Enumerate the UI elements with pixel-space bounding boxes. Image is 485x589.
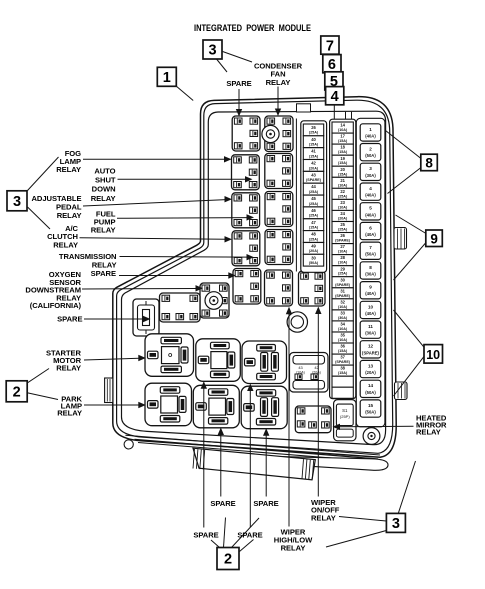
callout 3 left [7, 191, 27, 211]
svg-text:5: 5 [369, 206, 372, 211]
svg-text:(SPARE): (SPARE) [335, 294, 351, 298]
wire starter motor relay leader [84, 358, 140, 360]
fuse B18 33 (30A) [332, 310, 353, 321]
svg-text:13: 13 [368, 363, 374, 368]
callout 1 [157, 67, 176, 86]
wire oxygen sensor relay leader [82, 288, 197, 291]
relay block col1 row3 (adjustable pedal relay) [232, 193, 260, 228]
svg-text:(10A): (10A) [338, 261, 348, 265]
module housing middle contour [117, 100, 393, 453]
fuse 5 (40A) [360, 203, 381, 220]
svg-text:8: 8 [369, 265, 372, 270]
relay block col1 row1 (spare) [232, 116, 260, 151]
wire spare upper-left to relay E [220, 433, 222, 497]
fuse A5 43 (SPARE) [303, 171, 323, 183]
svg-text:38: 38 [340, 366, 345, 371]
park lamp relay (big block D) [145, 383, 192, 426]
bottom-right screw boss [363, 428, 380, 445]
svg-text:(25A): (25A) [309, 237, 319, 241]
svg-text:(50A): (50A) [365, 153, 376, 158]
callout 8 [421, 154, 438, 171]
callout 2 left [6, 381, 27, 402]
svg-text:SPARE: SPARE [91, 269, 116, 278]
svg-text:10: 10 [368, 304, 374, 309]
svg-text:9: 9 [369, 285, 372, 290]
svg-text:2: 2 [13, 385, 21, 401]
svg-text:(50A): (50A) [365, 390, 376, 395]
svg-text:(25A): (25A) [309, 202, 319, 206]
svg-text:(SPARE): (SPARE) [335, 360, 351, 364]
svg-text:12: 12 [368, 344, 374, 349]
svg-text:(40A): (40A) [365, 291, 376, 296]
fuse 1 (40A) [360, 124, 381, 141]
wire a/c clutch relay leader [80, 238, 227, 239]
inner wall step lines [345, 112, 347, 121]
bottom cover lip [218, 455, 388, 470]
svg-text:27: 27 [340, 244, 345, 249]
fuse B7 22 (25A) [332, 188, 353, 199]
svg-text:40: 40 [311, 137, 316, 142]
svg-text:34: 34 [340, 322, 345, 327]
svg-text:SPARE: SPARE [237, 531, 262, 540]
fuse A12 30 (50A) [303, 254, 323, 266]
svg-text:(15A): (15A) [309, 143, 319, 147]
wire callout 3 bottom to corner [398, 461, 415, 513]
fuse B23 38 (15A) [332, 365, 353, 376]
fuse B13 28 (10A) [332, 255, 353, 266]
wire condenser fan label to relay [277, 87, 279, 112]
svg-text:(50A): (50A) [365, 252, 376, 257]
fuse A3 41 (15A) [303, 148, 323, 160]
oxygen sensor downstream relay (california) with round center [200, 283, 229, 318]
wire callout 2 left to starter label [27, 369, 50, 384]
fuse 15 (50A) [360, 400, 381, 417]
right side tab upper [394, 228, 407, 250]
svg-text:(40A): (40A) [365, 133, 376, 138]
svg-text:3: 3 [369, 166, 372, 171]
fuse B1 14 (10A) [332, 122, 353, 133]
fuse B19 34 (10A) [332, 321, 353, 332]
svg-text:30: 30 [311, 255, 316, 260]
svg-text:(20A): (20A) [309, 166, 319, 170]
svg-text:(15A): (15A) [338, 161, 348, 165]
fuse 9 (40A) [360, 282, 381, 299]
svg-text:42: 42 [311, 161, 316, 166]
svg-text:48: 48 [311, 232, 316, 237]
wire callout 10 upper [394, 310, 425, 348]
callout 10 [424, 345, 443, 364]
fuse 12 (SPARE) [360, 341, 381, 358]
wiper on/off relay block [299, 271, 326, 306]
svg-text:(25A): (25A) [309, 131, 319, 135]
fuse A2 40 (15A) [303, 136, 323, 148]
fuse B10 25 (25A) [332, 222, 353, 233]
relay block col2 row4 (transmission relay) [265, 230, 293, 265]
svg-text:10: 10 [426, 348, 440, 362]
callout 3 top [203, 40, 222, 59]
svg-text:(50A): (50A) [309, 261, 319, 265]
svg-text:SPARE: SPARE [193, 531, 218, 540]
fuse 13 (20A) [360, 360, 381, 377]
fuse 8 (30A) [360, 262, 381, 279]
svg-text:19: 19 [340, 156, 345, 161]
svg-text:(25P): (25P) [340, 414, 350, 419]
starter motor relay (big block A) [145, 334, 194, 377]
svg-text:47: 47 [311, 220, 316, 225]
wire callout 3 top to condenser label [223, 52, 252, 63]
fuse B15 30 (SPARE) [332, 277, 353, 288]
wire spare-left leader [84, 318, 145, 320]
svg-text:(25A): (25A) [309, 190, 319, 194]
spare connector block [133, 299, 159, 336]
svg-text:(15A): (15A) [309, 226, 319, 230]
svg-text:INTEGRATED POWER MODULE: INTEGRATED POWER MODULE [194, 23, 311, 33]
svg-text:4: 4 [331, 89, 339, 105]
svg-text:26: 26 [340, 233, 345, 238]
bottom mounting tray [193, 448, 315, 480]
svg-text:(20A): (20A) [365, 370, 376, 375]
svg-text:(10A): (10A) [338, 338, 348, 342]
fuse A9 47 (15A) [303, 219, 323, 231]
svg-text:(10A): (10A) [338, 128, 348, 132]
svg-text:17: 17 [340, 134, 345, 139]
svg-text:(15A): (15A) [338, 172, 348, 176]
wire auto shut down relay leader [118, 178, 247, 180]
fuse B25 empty [332, 387, 353, 398]
callout 6 [323, 55, 341, 73]
svg-text:14: 14 [340, 123, 345, 128]
svg-text:(15A): (15A) [338, 371, 348, 375]
svg-text:1: 1 [369, 127, 372, 132]
wire callout 3 bottom to wiper high/low label [326, 531, 386, 548]
svg-text:49: 49 [311, 244, 316, 249]
fuse 10 (40A) [360, 301, 381, 318]
svg-text:8: 8 [425, 156, 433, 171]
bottom rim line [135, 439, 379, 459]
wire callout 3 left to a/c clutch label [28, 207, 51, 229]
svg-text:36: 36 [340, 344, 345, 349]
svg-text:(30A): (30A) [365, 271, 376, 276]
wire spare lower-left to callout 2 [211, 540, 220, 548]
svg-text:29: 29 [340, 266, 345, 271]
fuse B24 empty [332, 376, 353, 387]
wire transmission relay leader [120, 256, 249, 259]
wire callout 2 left to park label [26, 393, 58, 400]
svg-text:32: 32 [340, 299, 345, 304]
svg-text:AUTOSHUTDOWNRELAY: AUTOSHUTDOWNRELAY [91, 167, 116, 203]
relay block row5 left [233, 269, 261, 305]
wire wiper high/low relay line [288, 313, 290, 527]
callout 9 [426, 230, 443, 247]
svg-text:(25A): (25A) [338, 194, 348, 198]
fuse B9 24 (20A) [332, 210, 353, 221]
fuse B2 17 (15A) [332, 133, 353, 144]
svg-text:(50A): (50A) [365, 410, 376, 415]
dual fuse holder 43/42 [290, 353, 329, 393]
svg-text:(10A): (10A) [338, 205, 348, 209]
svg-text:(SPARE): (SPARE) [335, 283, 351, 287]
fuse B4 19 (15A) [332, 155, 353, 166]
fuse A1 26 (25A) [303, 124, 323, 136]
svg-text:30: 30 [340, 277, 345, 282]
svg-text:(40A): (40A) [365, 193, 376, 198]
svg-text:(20A): (20A) [309, 249, 319, 253]
svg-text:45: 45 [311, 196, 316, 201]
bottom-left screw hole [124, 440, 133, 449]
svg-text:6: 6 [328, 57, 336, 73]
wire callout 3 left to fog lamp label [28, 157, 59, 191]
wire park lamp relay leader [84, 404, 140, 406]
big relay block B [196, 339, 241, 382]
center mounting ring [287, 312, 307, 332]
wire spare-top to relay row1 col1 [238, 89, 240, 112]
fuse 4 (40A) [360, 183, 381, 200]
svg-text:18: 18 [340, 145, 345, 150]
svg-text:21: 21 [340, 178, 345, 183]
fuse column A container [301, 121, 327, 272]
wire callout 8 to fuse bank wall [388, 168, 422, 194]
svg-text:33: 33 [340, 311, 345, 316]
wire callout 4 stack into fuse bank [333, 104, 335, 119]
relay block col2 row2 (auto shut down relay) [265, 154, 293, 189]
fuse B12 27 (10A) [332, 244, 353, 255]
svg-text:(15A): (15A) [309, 154, 319, 158]
fuse 11 (30A) [360, 321, 381, 338]
fuse A6 44 (25A) [303, 183, 323, 195]
big relay block C [242, 341, 287, 384]
svg-text:(15A): (15A) [338, 139, 348, 143]
fuse 7 (50A) [360, 242, 381, 259]
svg-text:2: 2 [369, 147, 372, 152]
fuse A7 45 (25A) [303, 195, 323, 207]
relay block col1 row2 (fog lamp relay) [232, 155, 260, 190]
wire spare upper-right to callout 2 [232, 518, 260, 548]
module housing outer contour [113, 97, 396, 458]
fuse 6 (40A) [360, 222, 381, 239]
wire spare upper-left to callout 2 [224, 518, 226, 548]
svg-text:24: 24 [340, 211, 345, 216]
svg-text:11: 11 [368, 324, 373, 329]
svg-text:(25A): (25A) [338, 228, 348, 232]
svg-text:SPARE: SPARE [253, 499, 278, 508]
svg-text:41: 41 [311, 149, 316, 154]
wire heated mirror relay leader [339, 425, 414, 428]
svg-text:4: 4 [369, 186, 372, 191]
wire callout 3 top to spare label [217, 59, 228, 72]
svg-text:14: 14 [368, 383, 374, 388]
fuse B5 20 (15A) [332, 166, 353, 177]
fuse B3 18 (15A) [332, 144, 353, 155]
svg-text:WIPERON/OFFRELAY: WIPERON/OFFRELAY [311, 498, 340, 522]
right side tab lower [395, 382, 408, 400]
large fuse column container [356, 118, 385, 427]
relay block col2 row3 (fuel pump relay) [265, 192, 293, 227]
svg-text:44: 44 [311, 184, 316, 189]
fuse A4 42 (20A) [303, 160, 323, 172]
svg-text:(10A): (10A) [338, 305, 348, 309]
fuse A10 48 (25A) [303, 231, 323, 243]
wire callout 9 lower [394, 243, 427, 281]
fuse 2 (50A) [360, 144, 381, 161]
svg-text:(10A): (10A) [338, 183, 348, 187]
wire spare upper-right to relay F [265, 434, 267, 497]
svg-text:(20A): (20A) [338, 217, 348, 221]
svg-text:15: 15 [368, 403, 374, 408]
svg-text:43: 43 [311, 172, 316, 177]
fuse 3 (30A) [360, 163, 381, 180]
svg-text:31: 31 [340, 288, 345, 293]
svg-text:(SPARE): (SPARE) [306, 178, 322, 182]
svg-text:9: 9 [430, 231, 438, 246]
wire wiper on/off relay line [317, 312, 319, 497]
wire callout 8 to fuse 1 [386, 131, 422, 159]
fuse B6 21 (10A) [332, 177, 353, 188]
bottom rim outer line [138, 443, 375, 462]
fuse column B container [330, 119, 356, 399]
top edge notch [297, 104, 311, 112]
svg-text:(SPARE): (SPARE) [362, 350, 380, 355]
svg-text:S1: S1 [342, 408, 348, 413]
fuse B22 37 (SPARE) [332, 354, 353, 365]
fuse well left wall [295, 119, 297, 272]
svg-text:(15A): (15A) [338, 150, 348, 154]
svg-text:(25A): (25A) [309, 214, 319, 218]
S1 25-pin connector [334, 400, 356, 441]
fuse A11 49 (20A) [303, 243, 323, 255]
svg-text:25: 25 [340, 222, 345, 227]
big relay block E [193, 385, 239, 428]
svg-text:7: 7 [326, 38, 334, 54]
svg-text:3: 3 [208, 43, 216, 59]
fuse B16 31 (SPARE) [332, 288, 353, 299]
svg-text:1: 1 [163, 70, 171, 86]
wire spare lower-right to relay C [249, 389, 251, 528]
svg-text:26: 26 [311, 125, 316, 130]
svg-text:22: 22 [340, 189, 345, 194]
fuse 14 (50A) [360, 380, 381, 397]
wire fuel pump relay leader [117, 217, 248, 220]
svg-text:SPARE: SPARE [57, 315, 82, 324]
heated mirror relay block [295, 406, 331, 433]
wire spare upper-left leader [119, 275, 230, 277]
big relay block F [241, 386, 287, 429]
fuse B11 26 (SPARE) [332, 233, 353, 244]
wire adjustable pedal relay leader [83, 200, 226, 206]
svg-text:28: 28 [340, 255, 345, 260]
svg-text:6: 6 [369, 225, 372, 230]
svg-text:3: 3 [13, 194, 21, 210]
svg-text:(40A): (40A) [365, 232, 376, 237]
svg-text:(30A): (30A) [338, 316, 348, 320]
svg-text:43: 43 [298, 365, 302, 370]
callout 3 bottom [386, 513, 405, 532]
svg-text:(40A): (40A) [365, 311, 376, 316]
svg-text:(10A): (10A) [338, 250, 348, 254]
fuse B20 35 (10A) [332, 332, 353, 343]
bottom rim inner line [125, 435, 380, 455]
fuse B14 29 (25A) [332, 266, 353, 277]
svg-text:(30A): (30A) [365, 331, 376, 336]
callout 2 bottom [217, 548, 239, 570]
svg-text:PARKLAMPRELAY: PARKLAMPRELAY [57, 395, 82, 418]
svg-text:(15A): (15A) [338, 349, 348, 353]
left side tab [105, 378, 113, 403]
module housing inner wall edge [122, 111, 386, 444]
wire fog lamp relay leader [83, 158, 226, 160]
svg-text:35: 35 [340, 333, 345, 338]
fuse A8 46 (25A) [303, 207, 323, 219]
fuse B8 23 (10A) [332, 199, 353, 210]
sideways relay block left of oxygen relay [160, 293, 201, 322]
svg-text:37: 37 [340, 355, 345, 360]
condenser fan relay U-C1 with round center [262, 116, 293, 152]
wire callout 9 upper [396, 215, 427, 234]
relay block col1 row4 (a/c clutch relay) [232, 231, 260, 266]
wiper high/low relay block [265, 270, 293, 306]
svg-text:(30A): (30A) [365, 173, 376, 178]
svg-text:20: 20 [340, 167, 345, 172]
wire spare lower-left to relay B [203, 387, 205, 528]
svg-text:2: 2 [224, 552, 232, 568]
wire callout 1 to housing [175, 85, 193, 100]
fuse B21 36 (15A) [332, 343, 353, 354]
fuse B17 32 (10A) [332, 299, 353, 310]
svg-text:SPARE: SPARE [226, 79, 251, 88]
svg-text:(25A): (25A) [338, 272, 348, 276]
wire callout 10 lower [394, 356, 425, 396]
svg-text:7: 7 [369, 245, 372, 250]
callout 4 [326, 87, 344, 105]
svg-text:46: 46 [311, 208, 316, 213]
svg-text:23: 23 [340, 200, 345, 205]
wire spare lower-right to callout 2 [240, 540, 254, 552]
wire callout 3 bottom to wiper on/off label [339, 517, 386, 522]
callout 7 [321, 36, 339, 54]
svg-text:(40A): (40A) [365, 212, 376, 217]
svg-text:(10A): (10A) [338, 327, 348, 331]
callout 5 [325, 72, 343, 90]
svg-text:(SPARE): (SPARE) [335, 239, 351, 243]
svg-text:3: 3 [392, 516, 400, 532]
svg-text:SPARE: SPARE [210, 499, 235, 508]
